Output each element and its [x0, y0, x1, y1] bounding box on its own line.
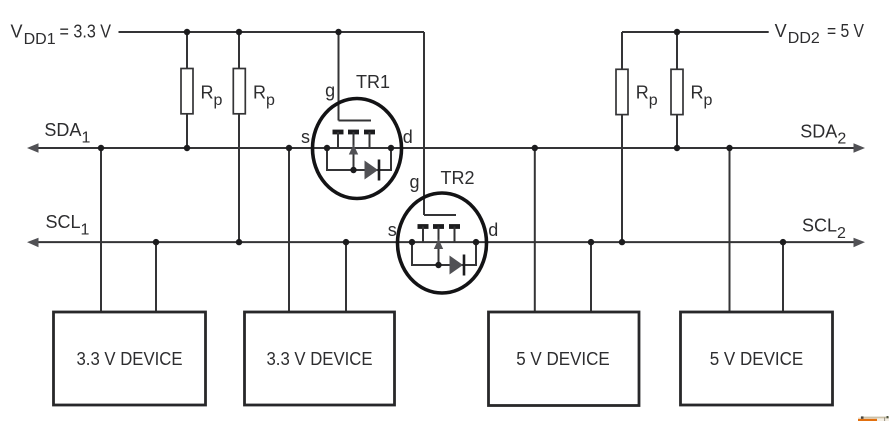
wire SCL bus — [36, 241, 856, 243]
watermark logo fragment bottom right — [858, 416, 889, 421]
device box 2: 3.3 V DEVICE — [245, 312, 395, 405]
svg-text:g: g — [325, 81, 335, 101]
label Rp left2 — [253, 83, 275, 109]
wire device1 SDA drop — [100, 148, 102, 312]
label Rp left1 — [201, 83, 223, 109]
svg-text:3.3 V DEVICE: 3.3 V DEVICE — [77, 349, 183, 369]
wire device3 SCL drop — [590, 242, 592, 312]
junction SDA device1 — [98, 145, 104, 151]
svg-text:d: d — [488, 220, 498, 240]
junction SCL device4 — [780, 239, 786, 245]
junction SDA device4 — [726, 145, 732, 151]
node VDD1 label = 3.3 V — [11, 22, 112, 48]
svg-text:2: 2 — [837, 225, 846, 242]
svg-text:R: R — [636, 83, 649, 103]
junction SCL Rp right1 — [619, 239, 625, 245]
arrow SCL1 left end — [27, 238, 39, 248]
junction TR1 drain on SDA — [388, 145, 394, 151]
resistor Rp right2 — [671, 32, 683, 148]
transistor TR2 — [398, 193, 487, 293]
svg-text:V: V — [11, 22, 23, 42]
node SCL2 label — [802, 216, 846, 242]
resistor Rp left2 — [233, 32, 245, 242]
arrow SDA2 right end — [854, 143, 866, 153]
wire device1 SCL drop — [155, 242, 157, 312]
junction SDA Rp right2 — [674, 145, 680, 151]
junction TR1 bulk loop — [350, 167, 356, 173]
svg-text:p: p — [214, 92, 223, 109]
junction SCL device2 — [343, 239, 349, 245]
device box 3: 5 V DEVICE — [489, 312, 640, 406]
svg-text:TR2: TR2 — [441, 168, 475, 188]
svg-text:3.3 V DEVICE: 3.3 V DEVICE — [267, 349, 373, 369]
svg-text:2: 2 — [837, 131, 846, 148]
junction VDD1 Rp1 — [184, 29, 190, 35]
node SDA2 label — [800, 121, 846, 147]
svg-text:g: g — [409, 172, 419, 192]
junction SCL device1 — [153, 239, 159, 245]
svg-text:R: R — [201, 83, 214, 103]
svg-text:s: s — [301, 127, 310, 147]
wire TR2 gate feed — [423, 32, 425, 215]
svg-text:p: p — [704, 92, 713, 109]
wire TR1 gate feed — [338, 32, 340, 121]
svg-text:s: s — [388, 220, 397, 240]
svg-text:5 V DEVICE: 5 V DEVICE — [710, 349, 804, 369]
junction VDD1 Rp2 — [236, 29, 242, 35]
junction TR2 bulk loop — [435, 262, 441, 268]
node SDA1 label — [44, 120, 90, 146]
svg-text:p: p — [649, 92, 658, 109]
wire device3 SDA drop — [534, 148, 536, 312]
svg-text:5 V DEVICE: 5 V DEVICE — [516, 349, 610, 369]
svg-text:= 5 V: = 5 V — [827, 21, 864, 41]
label Rp right1 — [636, 83, 658, 109]
device box 1: 3.3 V DEVICE — [54, 312, 206, 405]
transistor TR1 — [313, 99, 402, 199]
junction SDA device3 — [532, 145, 538, 151]
svg-text:1: 1 — [81, 221, 90, 238]
svg-text:R: R — [691, 83, 704, 103]
arrow SCL2 right end — [854, 238, 866, 248]
junction TR2 drain on SCL — [473, 239, 479, 245]
svg-text:= 3.3 V: = 3.3 V — [60, 22, 112, 42]
junction SDA Rp1 — [184, 145, 190, 151]
junction SDA device2 — [286, 145, 292, 151]
svg-text:SCL: SCL — [46, 212, 81, 232]
wire VDD2 rail — [622, 31, 769, 33]
resistor Rp right1 — [616, 32, 628, 242]
svg-text:V: V — [775, 21, 787, 41]
junction TR1 source on SDA — [324, 145, 330, 151]
svg-text:R: R — [253, 83, 266, 103]
junction VDD1 TR1 gate — [335, 29, 341, 35]
resistor Rp left1 — [181, 32, 193, 148]
junction TR2 source on SCL — [409, 239, 415, 245]
svg-text:d: d — [403, 127, 413, 147]
wire VDD1 rail — [119, 31, 425, 33]
svg-text:TR1: TR1 — [356, 72, 390, 92]
wire device2 SDA drop — [288, 148, 290, 312]
device box 4: 5 V DEVICE — [681, 312, 833, 405]
wire device4 SDA drop — [729, 148, 731, 312]
junction SCL device3 — [588, 239, 594, 245]
label Rp right2 — [691, 83, 713, 109]
junction VDD2 Rp2 — [674, 29, 680, 35]
node VDD2 label = 5 V — [775, 21, 864, 47]
node SCL1 label — [46, 212, 90, 238]
svg-text:SDA: SDA — [800, 121, 837, 141]
svg-text:SCL: SCL — [802, 216, 837, 236]
svg-text:1: 1 — [82, 129, 91, 146]
junction SCL Rp left2 — [236, 239, 242, 245]
arrow SDA1 left end — [27, 143, 39, 153]
wire SDA bus — [36, 147, 856, 149]
svg-text:p: p — [266, 92, 275, 109]
wire device4 SCL drop — [782, 242, 784, 312]
svg-text:DD2: DD2 — [788, 30, 820, 47]
wire device2 SCL drop — [345, 242, 347, 312]
svg-text:SDA: SDA — [44, 120, 81, 140]
svg-text:DD1: DD1 — [24, 31, 56, 48]
